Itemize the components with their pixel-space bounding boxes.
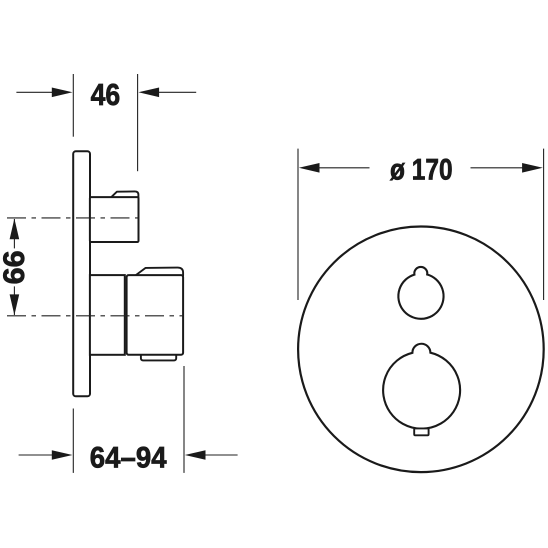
lower centerline xyxy=(7,315,184,317)
temperature knob outline (front view) xyxy=(398,267,443,319)
dimension 64-94: right arrowhead xyxy=(185,450,206,460)
dimension 46: right arrowhead xyxy=(138,88,159,98)
wall plate (side view) xyxy=(73,151,90,396)
dimension 66: label (rotated) xyxy=(0,248,31,286)
upper knob body (side view) xyxy=(90,197,139,242)
upper centerline xyxy=(7,217,139,219)
volume knob outline (front view) xyxy=(383,344,460,429)
svg-text:ø 170: ø 170 xyxy=(390,154,453,187)
dimension diameter 170: right line segment xyxy=(471,167,524,169)
dimension diameter 170: right extension line xyxy=(543,149,545,300)
dimension 64-94: left extension line xyxy=(72,409,74,473)
lower knob handle body (side view) xyxy=(127,275,184,355)
dimension 64-94: left arrowhead xyxy=(52,450,73,460)
dimension 46: left extension line xyxy=(72,74,74,137)
dimension diameter 170: left arrowhead xyxy=(299,163,320,173)
faceplate circle (front view) xyxy=(298,226,544,472)
dimension 46: left arrow line xyxy=(16,91,53,93)
lower knob lever (side view) xyxy=(135,268,183,276)
dimension 66: down arrowhead xyxy=(10,294,20,315)
dimension diameter 170: left extension line xyxy=(297,149,299,300)
dimension 64-94: right extension line xyxy=(183,366,185,473)
dimension 46: right arrow line xyxy=(158,91,196,93)
dimension diameter 170: right arrowhead xyxy=(522,163,543,173)
lower knob bottom tab (side view) xyxy=(141,352,176,360)
volume knob bottom tab (front view) xyxy=(414,428,428,435)
upper knob lever (side view) xyxy=(111,191,139,197)
svg-text:64–94: 64–94 xyxy=(90,441,167,474)
dimension 64-94: right arrow line xyxy=(205,454,238,456)
dimension 46: right extension line xyxy=(137,74,139,171)
dimension 64-94: left arrow line xyxy=(19,454,53,456)
dimension diameter 170: left line segment xyxy=(318,167,370,169)
dimension 46: left arrowhead xyxy=(52,88,73,98)
dimension 66: dimension line xyxy=(13,219,15,315)
svg-text:66: 66 xyxy=(0,250,31,284)
dimension 66: up arrowhead xyxy=(10,219,20,240)
svg-text:46: 46 xyxy=(91,78,121,112)
lower knob base (side view) xyxy=(90,275,125,355)
